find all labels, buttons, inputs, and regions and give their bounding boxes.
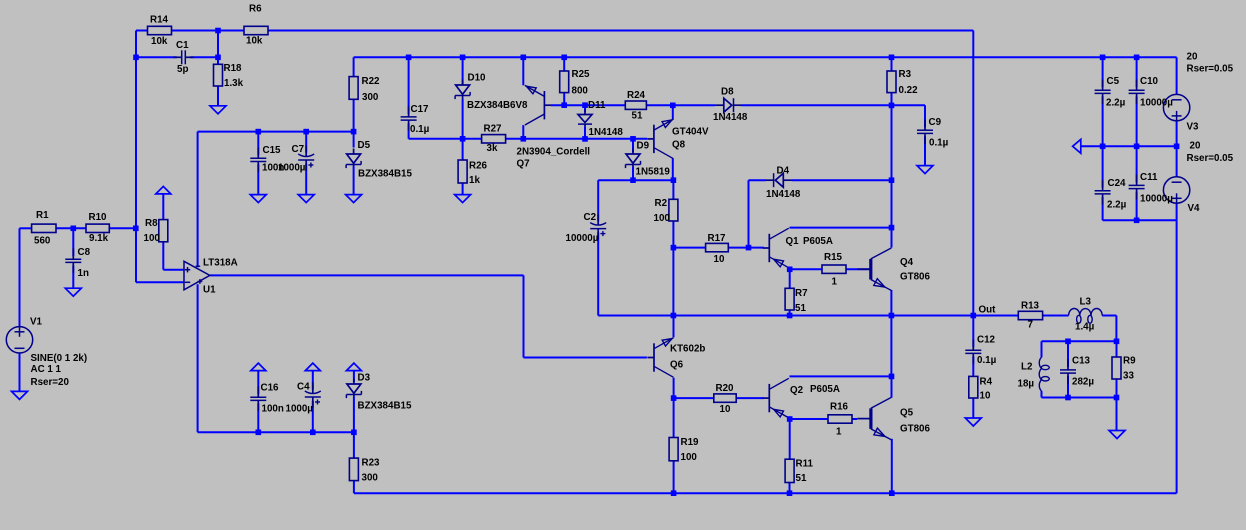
label "GT806" <box>900 272 931 283</box>
node Q6 collector <box>671 395 677 401</box>
capacitor C17 <box>401 106 417 131</box>
label "Q5" <box>900 408 914 419</box>
svg-text:R15: R15 <box>824 252 843 263</box>
wire D5 leads <box>353 132 355 195</box>
zener D9 <box>626 149 641 169</box>
ground under C8 <box>65 288 81 296</box>
svg-text:9.1k: 9.1k <box>89 233 109 244</box>
node C1 left <box>133 55 139 61</box>
wire Q4 collector pin <box>891 228 893 248</box>
svg-text:300: 300 <box>362 92 379 103</box>
svg-text:18µ: 18µ <box>1018 379 1035 390</box>
wire R4 leads <box>972 398 974 418</box>
label "D3" <box>358 373 371 384</box>
node Q6 emitter out <box>671 313 677 319</box>
label "1.4µ" <box>1075 322 1095 333</box>
wire V3 bottom lead <box>1176 121 1178 147</box>
label "D9" <box>637 141 650 152</box>
resistor R16 <box>828 415 852 423</box>
label "KT602b" <box>670 344 705 355</box>
svg-text:R13: R13 <box>1021 300 1040 311</box>
svg-text:0.22: 0.22 <box>899 85 919 96</box>
svg-text:Q8: Q8 <box>672 140 686 151</box>
wire R17 row <box>673 247 763 249</box>
diode D4 <box>766 173 792 187</box>
transistor Q8 <box>647 119 673 159</box>
wire opamp out to Q6 base <box>210 275 647 357</box>
label "1N5819" <box>636 167 671 178</box>
wire top rail y30 <box>136 30 148 32</box>
node Q7 emitter rail <box>521 55 527 61</box>
svg-text:C1: C1 <box>176 40 189 51</box>
svg-text:C17: C17 <box>411 104 430 115</box>
label "R4" <box>980 377 993 388</box>
svg-text:R4: R4 <box>980 377 993 388</box>
label "R7" <box>795 288 808 299</box>
node C8 top <box>71 226 77 232</box>
resistor R6 <box>244 26 268 34</box>
capacitor C11 <box>1129 175 1145 200</box>
svg-text:800: 800 <box>572 85 589 96</box>
label "1.3k" <box>224 78 244 89</box>
svg-text:BZX384B15: BZX384B15 <box>358 169 412 180</box>
svg-text:D10: D10 <box>468 73 487 84</box>
capacitor C10 <box>1129 79 1145 104</box>
ground under V1 <box>12 391 28 399</box>
svg-text:R27: R27 <box>484 124 503 135</box>
svg-text:0.1µ: 0.1µ <box>977 355 997 366</box>
wire C24 leads <box>1103 146 1177 220</box>
svg-text:D9: D9 <box>637 141 650 152</box>
node D10 bottom <box>460 136 466 142</box>
node Q4 collector <box>889 225 895 231</box>
label "C12" <box>977 335 996 346</box>
svg-text:R19: R19 <box>681 437 700 448</box>
diode D11 <box>578 110 592 126</box>
svg-text:D11: D11 <box>588 100 606 111</box>
capacitor C5 <box>1095 79 1111 104</box>
svg-text:3k: 3k <box>487 143 498 154</box>
svg-text:560: 560 <box>34 236 51 247</box>
svg-text:100: 100 <box>681 452 698 463</box>
resistor R9 <box>1112 357 1121 379</box>
svg-text:1: 1 <box>832 277 838 288</box>
wire V1 top lead <box>20 228 32 326</box>
label "R24" <box>627 90 646 101</box>
node Q1 emitter <box>787 267 793 273</box>
svg-text:2N3904_Cordell: 2N3904_Cordell <box>517 147 591 158</box>
power flag above C4 <box>305 363 320 371</box>
svg-text:51: 51 <box>795 303 806 314</box>
svg-text:R7: R7 <box>795 288 808 299</box>
wire R2-Out vertical <box>672 248 674 316</box>
svg-text:1N5819: 1N5819 <box>636 167 671 178</box>
svg-text:C12: C12 <box>977 335 996 346</box>
svg-text:1N4148: 1N4148 <box>766 189 801 200</box>
label "51" <box>796 473 807 484</box>
svg-text:D8: D8 <box>721 87 734 98</box>
node R7 bottom <box>787 313 793 319</box>
label "R26" <box>469 160 488 171</box>
transistor Q7 <box>525 85 551 125</box>
label "1000µ" <box>286 403 314 414</box>
svg-text:R6: R6 <box>249 3 262 14</box>
label "BZX384B15" <box>358 169 412 180</box>
svg-text:1.3k: 1.3k <box>224 78 244 89</box>
svg-text:R23: R23 <box>362 458 381 469</box>
node R25 top <box>561 55 567 61</box>
svg-text:10000µ: 10000µ <box>1140 194 1173 205</box>
label "18µ" <box>1018 379 1035 390</box>
label "1" <box>836 427 842 438</box>
label "D4" <box>777 166 790 177</box>
voltage source V1 <box>6 327 32 353</box>
svg-text:10: 10 <box>714 254 725 265</box>
node D4 right <box>889 177 895 183</box>
svg-text:KT602b: KT602b <box>670 344 705 355</box>
wire node218 vertical <box>217 31 219 58</box>
svg-text:300: 300 <box>362 473 379 484</box>
label "0.1µ" <box>977 355 997 366</box>
svg-text:R14: R14 <box>150 15 169 26</box>
label "Rser=0.05" <box>1187 64 1234 75</box>
svg-text:282µ: 282µ <box>1072 377 1094 388</box>
svg-text:GT806: GT806 <box>900 423 931 434</box>
wire supply rail y57 <box>354 56 1177 58</box>
node D9 top <box>630 136 636 142</box>
label "282µ" <box>1072 377 1094 388</box>
label "C10" <box>1140 76 1159 87</box>
label "20" <box>1190 141 1201 152</box>
node Q5 collector <box>889 374 895 380</box>
label "100" <box>681 452 698 463</box>
resistor R27 <box>482 135 506 143</box>
svg-text:R1: R1 <box>36 210 49 221</box>
label "L2" <box>1021 362 1033 373</box>
label "0.22" <box>899 85 919 96</box>
svg-text:1k: 1k <box>469 175 480 186</box>
label "D8" <box>721 87 734 98</box>
svg-text:SINE(0 1 2k): SINE(0 1 2k) <box>31 353 88 364</box>
zener D3 <box>346 379 361 399</box>
wire right vertical x891 <box>891 105 893 227</box>
svg-text:20: 20 <box>1187 52 1198 63</box>
label "C8" <box>78 247 91 258</box>
label "SINE(0 1 2k)" <box>31 353 88 364</box>
label "51" <box>795 303 806 314</box>
label "3k" <box>487 143 498 154</box>
capacitor C7 <box>298 145 314 170</box>
node C4 bottom <box>310 430 316 436</box>
label "2.2µ" <box>1106 98 1126 109</box>
svg-text:100: 100 <box>144 233 161 244</box>
label "D10" <box>468 73 487 84</box>
node R19 bottom <box>671 490 677 496</box>
label "R3" <box>899 69 912 80</box>
label "Q1" <box>786 236 800 247</box>
label "C24" <box>1108 178 1127 189</box>
svg-text:GT806: GT806 <box>900 272 931 283</box>
node R10 right <box>133 226 139 232</box>
label "R22" <box>362 76 381 87</box>
wire V3 top lead <box>1176 57 1178 94</box>
svg-text:L2: L2 <box>1021 362 1033 373</box>
svg-text:5p: 5p <box>177 64 188 75</box>
svg-text:20: 20 <box>1190 141 1201 152</box>
resistor R4 <box>969 376 978 398</box>
label "R2" <box>655 198 668 209</box>
node Q7 collector <box>521 136 527 142</box>
node D11 bottom <box>582 136 588 142</box>
label "1N4148" <box>766 189 801 200</box>
svg-text:GT404V: GT404V <box>672 126 709 137</box>
label "10000µ" <box>1140 98 1173 109</box>
resistor R11 <box>785 459 794 482</box>
label "10k" <box>246 36 263 47</box>
wire R6 to right corner <box>268 30 973 32</box>
label "Rser=20" <box>31 377 70 388</box>
wire Q4 emitter pin <box>890 290 892 316</box>
svg-text:10: 10 <box>980 391 991 402</box>
wire D3 leads <box>353 371 355 433</box>
node R3 bottom <box>889 103 895 109</box>
ground under C9 <box>917 166 933 174</box>
ground under R18 <box>210 106 226 114</box>
wire R1-R10 row <box>56 227 136 229</box>
resistor R3 <box>887 71 896 93</box>
svg-text:7: 7 <box>1028 320 1034 331</box>
wire Q5 emitter pin <box>891 439 893 493</box>
node Q2 emitter <box>787 416 793 422</box>
label "800" <box>572 85 589 96</box>
label "R17" <box>708 233 727 244</box>
power flag above C16 <box>251 363 266 371</box>
label "R11" <box>796 459 814 470</box>
wire Q2 collector to Q5 <box>790 375 892 377</box>
wire R9 leads <box>1116 341 1118 430</box>
label "10" <box>980 391 991 402</box>
svg-text:R24: R24 <box>627 90 646 101</box>
label "C11" <box>1140 172 1158 183</box>
label "560" <box>34 236 51 247</box>
power flag above D3 <box>346 363 361 371</box>
zener D10 <box>455 80 470 100</box>
voltage source V4 <box>1163 177 1189 204</box>
resistor R25 <box>560 71 569 93</box>
svg-text:P605A: P605A <box>810 384 840 395</box>
node R2 bottom <box>671 245 677 251</box>
label "Q4" <box>900 257 914 268</box>
svg-text:V4: V4 <box>1188 203 1201 214</box>
label "C13" <box>1072 356 1091 367</box>
resistor R18 <box>214 64 223 86</box>
wire Q2 emitter node <box>790 418 858 420</box>
label "R23" <box>362 458 381 469</box>
node C17 top <box>406 55 412 61</box>
diode D8 <box>715 98 741 112</box>
label "Out" <box>979 305 997 316</box>
label "R8" <box>145 218 158 229</box>
node V3-V4 <box>1174 144 1180 150</box>
svg-text:C16: C16 <box>261 382 280 393</box>
svg-text:C10: C10 <box>1140 76 1159 87</box>
label "300" <box>362 92 379 103</box>
node C7 top <box>303 129 309 135</box>
label "P605A" <box>810 384 840 395</box>
label "20" <box>1187 52 1198 63</box>
node D10 top <box>460 55 466 61</box>
ground under C15 <box>250 195 266 203</box>
resistor R20 <box>714 394 736 402</box>
label "51" <box>632 111 643 122</box>
svg-text:R9: R9 <box>1123 356 1136 367</box>
capacitor C16 <box>250 386 266 411</box>
label "7" <box>1028 320 1034 331</box>
wire Out rail <box>598 316 1116 342</box>
svg-text:R10: R10 <box>89 212 108 223</box>
svg-text:D4: D4 <box>777 166 790 177</box>
node C1 right <box>215 55 221 61</box>
node R25 bottom <box>561 102 567 108</box>
svg-text:0.1µ: 0.1µ <box>929 138 949 149</box>
wire left vertical x136 <box>136 31 184 283</box>
wire R19 leads <box>673 398 675 493</box>
svg-text:1.4µ: 1.4µ <box>1075 322 1095 333</box>
label "1N4148" <box>589 127 624 138</box>
capacitor C24 <box>1095 180 1111 205</box>
wire C12 leads <box>972 316 974 377</box>
transistor Q4 <box>857 248 891 291</box>
label "R16" <box>830 401 849 412</box>
wire R7 leads <box>789 269 791 315</box>
label "R13" <box>1021 300 1040 311</box>
label "10" <box>720 404 731 415</box>
label "10k" <box>151 36 168 47</box>
ground under R4 <box>965 418 981 426</box>
capacitor C4 <box>305 382 321 407</box>
node R9 top <box>1114 339 1120 345</box>
transistor Q1 <box>763 228 789 268</box>
svg-text:R25: R25 <box>572 69 591 80</box>
resistor R1 <box>32 224 56 232</box>
node C5 top <box>1100 55 1106 61</box>
svg-text:V3: V3 <box>1187 122 1200 133</box>
wire C11 leads <box>1136 146 1138 220</box>
wire Q7 emitter/collector pins <box>522 57 524 139</box>
svg-text:51: 51 <box>796 473 807 484</box>
wire C17 leads <box>408 57 410 139</box>
capacitor C8 <box>65 248 81 273</box>
svg-text:L3: L3 <box>1080 296 1092 307</box>
wire R2 leads <box>672 180 674 247</box>
wire mid supply rail y146 <box>1081 145 1177 147</box>
svg-text:Q5: Q5 <box>900 408 914 419</box>
label "LT318A" <box>203 258 238 269</box>
svg-text:C2: C2 <box>584 212 597 223</box>
node D3 bottom <box>351 430 357 436</box>
node D11 top <box>582 102 588 108</box>
svg-text:51: 51 <box>632 111 643 122</box>
wire R23 leads <box>353 432 355 493</box>
wire C2 node segment y180 <box>598 179 673 181</box>
svg-text:Rser=0.05: Rser=0.05 <box>1187 64 1234 75</box>
node C13 bottom <box>1065 395 1071 401</box>
label "C1" <box>176 40 189 51</box>
inductor L2 <box>1039 357 1049 391</box>
wire C4 leads <box>312 371 314 433</box>
label "P605A" <box>803 236 833 247</box>
svg-text:R3: R3 <box>899 69 912 80</box>
label "U1" <box>203 285 216 296</box>
label "C5" <box>1107 76 1120 87</box>
resistor R10 <box>86 224 109 232</box>
wire Q1 collector to Q4 <box>790 227 892 229</box>
wire R8 leads <box>163 194 184 270</box>
wire tank bottom <box>1042 397 1117 399</box>
label "V1" <box>30 317 43 328</box>
svg-text:10k: 10k <box>246 36 263 47</box>
label "2N3904_Cordell" <box>517 147 591 158</box>
label "C4" <box>297 382 310 393</box>
label "C9" <box>929 117 942 128</box>
label "9.1k" <box>89 233 109 244</box>
wire V1 bottom lead <box>19 353 21 391</box>
wire D10 leads <box>462 57 464 139</box>
wire opamp V+ rail y131 <box>198 132 354 268</box>
label "R25" <box>572 69 591 80</box>
wire right-center vertical x973 <box>972 31 974 316</box>
label "C2" <box>584 212 597 223</box>
label "R18" <box>224 63 243 74</box>
wire Q1 emitter node <box>790 268 870 270</box>
label "10000µ" <box>1140 194 1173 205</box>
node C11 bottom <box>1134 218 1140 224</box>
svg-text:D5: D5 <box>358 140 371 151</box>
label "100" <box>654 213 671 224</box>
wire R25 leads <box>563 57 565 105</box>
label "10" <box>714 254 725 265</box>
transistor Q5 <box>857 397 891 440</box>
node C13 top <box>1065 339 1071 345</box>
label "D5" <box>358 140 371 151</box>
node C5 bottom <box>1100 144 1106 150</box>
svg-text:R18: R18 <box>224 63 243 74</box>
wire base rail y105 <box>551 105 925 165</box>
node feedback top <box>215 28 221 34</box>
capacitor C12 <box>965 339 981 364</box>
resistor R7 <box>785 288 794 310</box>
svg-text:R20: R20 <box>716 383 735 394</box>
svg-text:R16: R16 <box>830 401 849 412</box>
node R2 top <box>671 177 677 183</box>
svg-text:C7: C7 <box>292 144 305 155</box>
svg-text:R26: R26 <box>469 160 488 171</box>
power flag above R8 <box>156 186 171 194</box>
label "1000µ" <box>278 163 306 174</box>
resistor R13 <box>1018 311 1042 319</box>
label "GT404V" <box>672 126 709 137</box>
label "V4" <box>1188 203 1201 214</box>
svg-text:Q6: Q6 <box>670 360 684 371</box>
node C10 top <box>1134 55 1140 61</box>
node D5 top <box>351 129 357 135</box>
svg-text:10000µ: 10000µ <box>566 233 599 244</box>
wire C7 leads <box>305 132 307 195</box>
node R11 bottom <box>787 490 793 496</box>
svg-text:100n: 100n <box>262 403 284 414</box>
label "Q8" <box>672 140 686 151</box>
capacitor C2 <box>590 214 606 239</box>
